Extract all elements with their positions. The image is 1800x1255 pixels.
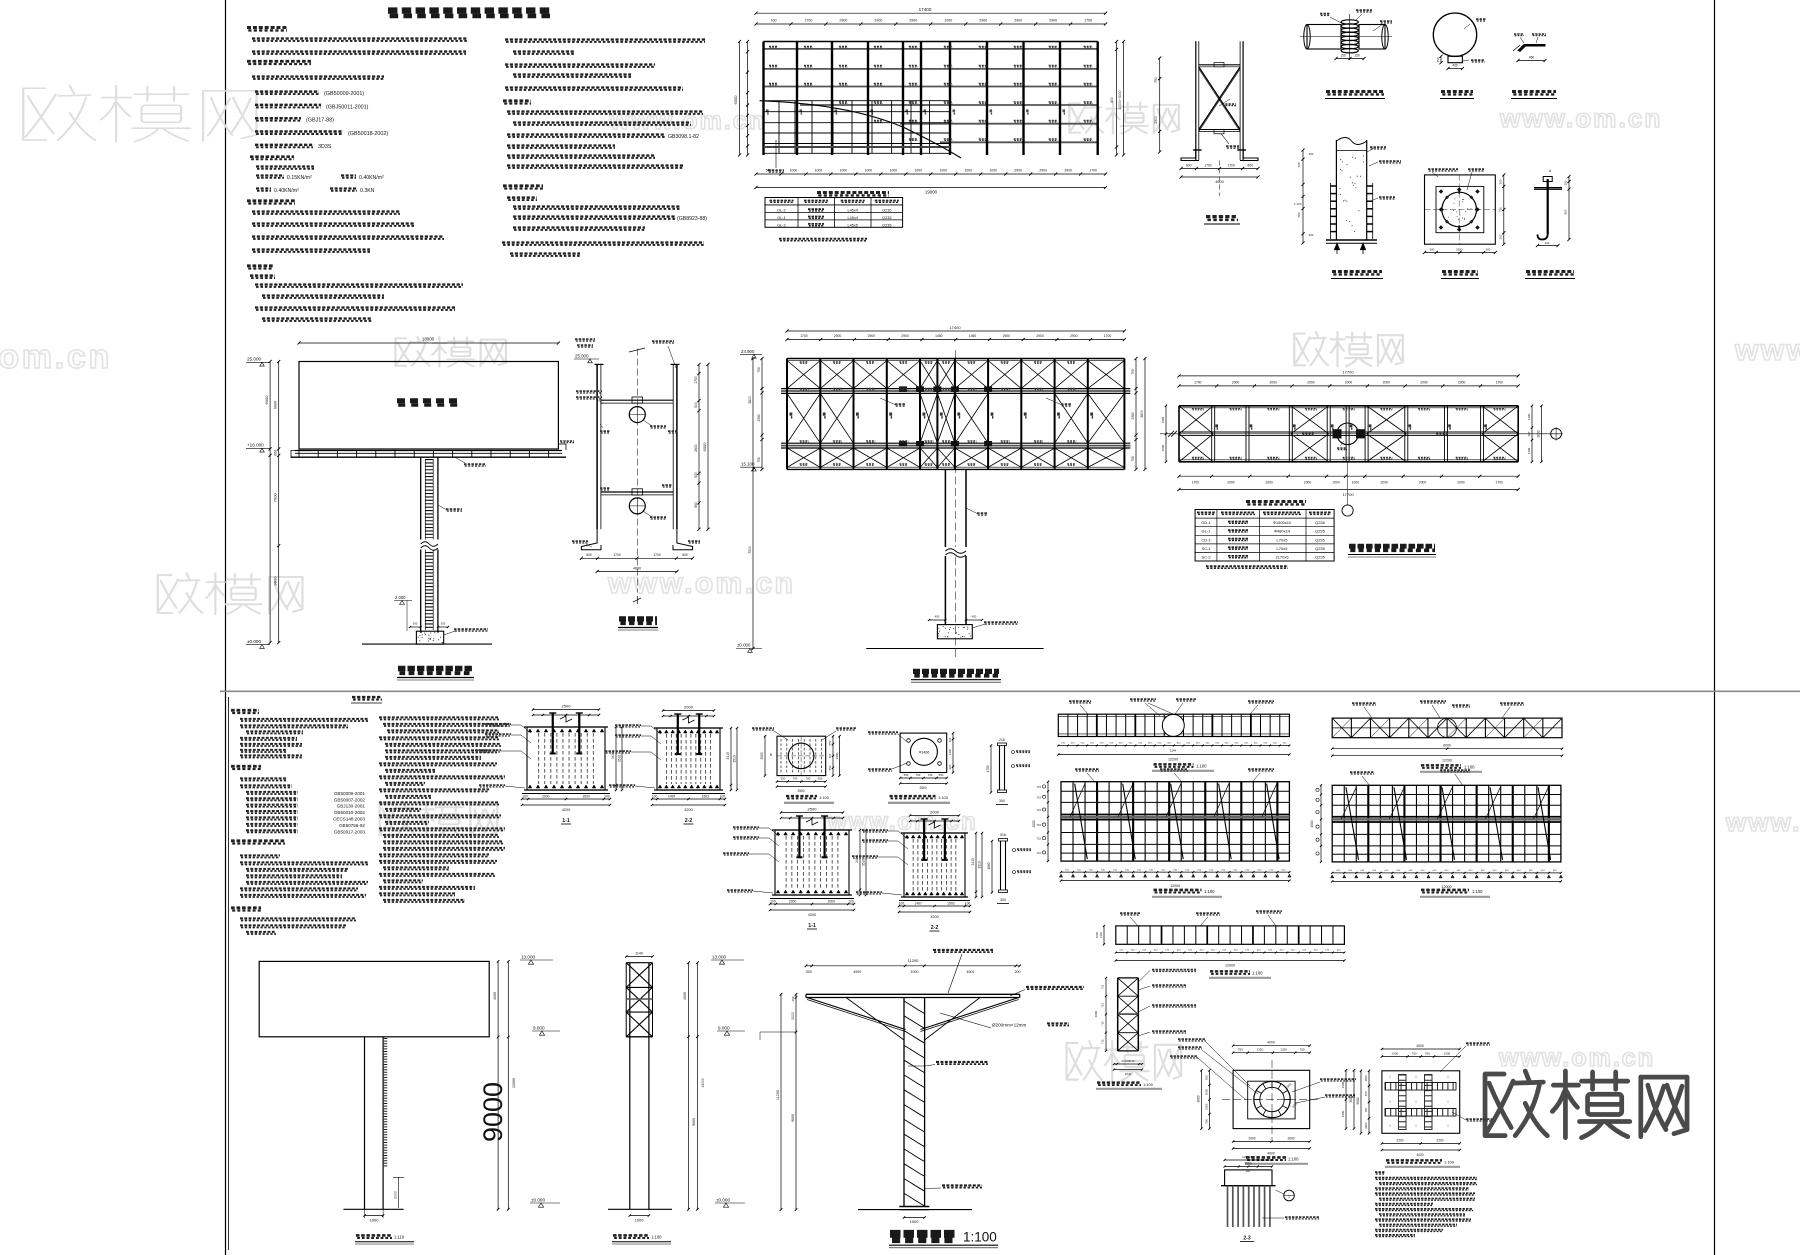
svg-text:Φ1500x10: Φ1500x10 xyxy=(1273,520,1292,525)
svg-text:1:100: 1:100 xyxy=(963,1230,997,1245)
svg-text:700: 700 xyxy=(1364,1091,1368,1096)
svg-text:3000: 3000 xyxy=(1537,430,1541,437)
svg-text:GL-1: GL-1 xyxy=(777,216,785,220)
svg-text:300: 300 xyxy=(1430,248,1435,252)
svg-text:2000: 2000 xyxy=(1270,380,1278,384)
svg-text:1300: 1300 xyxy=(1527,413,1531,420)
secondary grid beam labels xyxy=(769,45,778,47)
structure elevation title xyxy=(913,669,999,674)
structure plan: stiffener verticals xyxy=(1211,406,1213,462)
A-A section: leaders xyxy=(1428,168,1458,170)
svg-text:2000: 2000 xyxy=(828,900,836,904)
secondary grid left dimension columns xyxy=(747,42,749,156)
svg-text:700: 700 xyxy=(1425,1052,1430,1056)
foundation section 1-1B: anchor bolts xyxy=(798,816,800,857)
svg-text:3510: 3510 xyxy=(618,755,622,763)
structure elevation: top dims xyxy=(787,339,1124,341)
column elevation: left dim cols xyxy=(780,994,782,1209)
svg-text:2900: 2900 xyxy=(1039,169,1047,173)
svg-text:9800: 9800 xyxy=(273,576,278,586)
embed plate plan: title with underline xyxy=(786,795,817,797)
A-A section: title xyxy=(1442,270,1478,273)
svg-text:2000: 2000 xyxy=(1419,481,1427,485)
channel detail A xyxy=(999,746,1001,791)
svg-text:1300: 1300 xyxy=(1391,1052,1398,1056)
svg-text:9.000: 9.000 xyxy=(533,1026,545,1031)
svg-text:2500: 2500 xyxy=(808,807,818,812)
secondary grid beams lower xyxy=(800,104,1098,106)
billboard plan strip: bottom dims xyxy=(1332,748,1562,750)
svg-text:1000: 1000 xyxy=(635,1218,645,1223)
svg-text:2000: 2000 xyxy=(1383,380,1391,384)
secondary grid right dimension columns xyxy=(1116,42,1118,156)
front elevation small dim 2000 xyxy=(397,1177,399,1208)
billboard footing xyxy=(416,631,443,644)
svg-text:2000: 2000 xyxy=(1227,481,1235,485)
svg-text:19000: 19000 xyxy=(925,190,938,195)
svg-text:0.15KN/m²: 0.15KN/m² xyxy=(287,175,312,181)
structure plan: right side dims xyxy=(1531,406,1533,462)
foundation section 1-1B: bottom dims xyxy=(770,903,854,905)
svg-text:715: 715 xyxy=(1101,1003,1105,1008)
svg-text:1500: 1500 xyxy=(1341,1110,1345,1117)
svg-text:750: 750 xyxy=(1131,456,1135,462)
foundation section 2-2B: body xyxy=(904,833,965,897)
svg-text:2000: 2000 xyxy=(1232,380,1240,384)
foundation plan: left dims xyxy=(1209,1070,1211,1128)
svg-text:1140: 1140 xyxy=(635,952,643,956)
foundation section 1-1B: pile dashes xyxy=(785,836,787,889)
billboard plan strip: leaders xyxy=(1352,702,1376,704)
svg-text:600: 600 xyxy=(682,553,688,557)
svg-text:750: 750 xyxy=(1131,369,1135,375)
svg-text:100: 100 xyxy=(1564,180,1568,185)
svg-text:1700: 1700 xyxy=(986,765,990,772)
billboard back elevation grid: horizontals xyxy=(1061,790,1289,792)
secondary grid columns xyxy=(762,42,764,156)
svg-text:200: 200 xyxy=(791,996,795,1001)
section 1-1: lower pipe circle xyxy=(629,498,645,514)
svg-text:1:100: 1:100 xyxy=(1196,764,1207,769)
svg-text:4000: 4000 xyxy=(1416,1044,1424,1048)
foundation rebar plan: horizontal bands xyxy=(1385,1083,1456,1091)
svg-text:1700: 1700 xyxy=(653,553,661,557)
billboard front elevation: title xyxy=(1421,889,1469,892)
front elevation title xyxy=(356,1234,392,1237)
billboard walkway xyxy=(295,450,562,452)
ZJ-1 title xyxy=(1206,215,1238,218)
svg-text:750: 750 xyxy=(757,367,761,373)
foundation rebar plan: top dims xyxy=(1382,1056,1460,1058)
billboard panel text xyxy=(397,398,458,403)
walkway leader label xyxy=(455,457,465,463)
svg-text:1:100: 1:100 xyxy=(651,1235,662,1240)
billboard back elevation: left dim circles xyxy=(1047,782,1049,861)
svg-text:1: 1 xyxy=(1288,1194,1290,1198)
billboard side truss: left dims xyxy=(1105,978,1107,1051)
svg-text:715: 715 xyxy=(1037,837,1042,841)
svg-text:4900: 4900 xyxy=(853,970,861,974)
svg-text:450: 450 xyxy=(935,615,940,619)
components table (secondary) xyxy=(765,198,903,228)
svg-text:1500: 1500 xyxy=(1161,444,1165,451)
billboard back elevation: title xyxy=(1154,889,1202,892)
watermark oumo top-left xyxy=(23,86,256,142)
svg-text:750: 750 xyxy=(1300,1048,1305,1052)
svg-text:1000: 1000 xyxy=(1095,931,1099,938)
watermark oumo bottom-left-of-foundation xyxy=(1067,1041,1182,1081)
side elevation top truss section xyxy=(625,963,627,1037)
svg-text:4200: 4200 xyxy=(562,808,570,812)
svg-text:100: 100 xyxy=(848,900,854,904)
embed plate plan: body xyxy=(777,736,826,775)
svg-text:4200: 4200 xyxy=(808,913,816,917)
svg-text:100: 100 xyxy=(899,902,905,906)
billboard front elevation grid: horizontals xyxy=(1332,793,1561,795)
svg-text:550: 550 xyxy=(828,740,832,745)
svg-text:4000: 4000 xyxy=(1267,1041,1275,1045)
embed plate plan: corner leaders xyxy=(752,727,774,729)
ladder leader label xyxy=(438,505,447,510)
foundation section 2-2A: anchor bolts xyxy=(677,714,679,754)
billboard front elevation grid: frame xyxy=(1332,785,1561,862)
section 1-1: bottom dims xyxy=(581,557,692,559)
svg-text:4000: 4000 xyxy=(1267,1152,1275,1156)
svg-text:2900: 2900 xyxy=(1014,19,1022,23)
billboard back elevation: top leaders xyxy=(1075,768,1099,770)
svg-text:17700: 17700 xyxy=(1342,369,1354,374)
svg-text:13000: 13000 xyxy=(701,1078,705,1088)
svg-text:2000: 2000 xyxy=(684,705,694,710)
billboard side truss: right leaders xyxy=(1152,969,1196,971)
svg-text:3510: 3510 xyxy=(733,755,737,763)
svg-text:2200: 2200 xyxy=(1396,1139,1403,1143)
anchor hole plan: body xyxy=(900,733,947,772)
side elevation 1:100 column xyxy=(629,963,631,1210)
billboard plan strip: circle xyxy=(1438,718,1457,737)
svg-text:4901: 4901 xyxy=(967,970,975,974)
svg-text:218: 218 xyxy=(999,738,1005,742)
svg-text:GBJ130-2001: GBJ130-2001 xyxy=(337,804,366,809)
svg-text:(GBJ50011-2001): (GBJ50011-2001) xyxy=(326,104,369,110)
column elevation: spiral pole xyxy=(903,998,905,1207)
svg-text:9000: 9000 xyxy=(478,1082,508,1142)
column elevation: top dim row xyxy=(806,965,1020,967)
section 1-1: left channel xyxy=(596,364,598,529)
svg-text:300: 300 xyxy=(1499,179,1503,184)
svg-text:1500: 1500 xyxy=(1161,416,1165,423)
foundation plan: right dims xyxy=(1345,1070,1347,1128)
pile section 2-3: cap xyxy=(1225,1170,1272,1186)
structure elevation: right dim columns xyxy=(1135,359,1137,470)
svg-text:500: 500 xyxy=(694,402,698,408)
svg-text:12000: 12000 xyxy=(1170,884,1180,888)
svg-text:2900: 2900 xyxy=(1064,169,1072,173)
walkway step detail xyxy=(1518,45,1545,52)
bottom notes col A heading 2 xyxy=(231,765,261,768)
svg-text:13000: 13000 xyxy=(512,1078,516,1088)
foundation rebar plan: vertical bands xyxy=(1399,1075,1407,1130)
svg-text:2000: 2000 xyxy=(1287,1137,1294,1141)
svg-text:3500: 3500 xyxy=(1244,1162,1251,1166)
svg-text:120: 120 xyxy=(1545,241,1550,245)
billboard front elevation: left dim xyxy=(1320,785,1322,862)
svg-text:2500: 2500 xyxy=(797,789,804,793)
svg-text:1700: 1700 xyxy=(613,553,621,557)
embed plate plan: bottom dims xyxy=(777,781,826,783)
foundation section 1-1A: anchor bolts xyxy=(552,713,554,753)
svg-text:3510: 3510 xyxy=(862,859,866,867)
svg-text:1:100: 1:100 xyxy=(1464,765,1475,770)
svg-text:300: 300 xyxy=(441,622,446,626)
svg-text:17400: 17400 xyxy=(949,325,961,330)
side elevation top small dim 1140 xyxy=(626,956,652,958)
A-A section: dims xyxy=(1503,175,1505,244)
svg-text:2300: 2300 xyxy=(1131,412,1135,419)
structure plan: right centre bubble xyxy=(1551,428,1562,439)
svg-text:2900: 2900 xyxy=(909,19,917,23)
svg-text:Ø200mm×12mm: Ø200mm×12mm xyxy=(992,1023,1027,1028)
secondary grid bottom dimension rows xyxy=(756,173,1106,175)
svg-text:3200: 3200 xyxy=(930,915,938,919)
svg-text:2900: 2900 xyxy=(1036,334,1044,338)
svg-text:700: 700 xyxy=(1364,1107,1368,1112)
svg-text:1250 250: 1250 250 xyxy=(1242,1155,1254,1159)
svg-text:2900: 2900 xyxy=(1154,116,1158,124)
foundation section 2-2B: top dims xyxy=(910,815,959,817)
svg-text:2900: 2900 xyxy=(979,19,987,23)
anchor hole plan: corner holes xyxy=(907,739,911,743)
svg-text:17400: 17400 xyxy=(919,7,932,12)
svg-text:1:100: 1:100 xyxy=(1472,889,1483,894)
svg-text:±0.000: ±0.000 xyxy=(737,643,751,648)
notes column A body xyxy=(252,37,468,39)
pipe beam weld joint: title xyxy=(1326,90,1384,93)
svg-text:(GBJ17-88): (GBJ17-88) xyxy=(306,118,334,124)
foundation plan: top dims xyxy=(1233,1052,1310,1054)
svg-text:GB50756-92: GB50756-92 xyxy=(339,823,365,828)
anchor hole plan: big circle xyxy=(910,738,937,765)
column elevation: base dim 1000 xyxy=(904,1217,925,1219)
svg-text:1-1: 1-1 xyxy=(562,818,570,824)
svg-text:2000: 2000 xyxy=(791,1012,795,1020)
svg-text:2300: 2300 xyxy=(757,414,761,421)
bottom sheet title xyxy=(352,696,382,699)
svg-text:300: 300 xyxy=(1309,152,1314,156)
svg-text:1:100: 1:100 xyxy=(1294,202,1302,206)
oumo logo dark bottom-right xyxy=(1485,1071,1687,1138)
svg-text:17700: 17700 xyxy=(1342,492,1354,497)
svg-text:100: 100 xyxy=(720,795,726,799)
svg-text:200: 200 xyxy=(1015,970,1021,974)
svg-text:1450: 1450 xyxy=(935,334,943,338)
secondary grid frame xyxy=(764,41,1098,43)
svg-text:1700: 1700 xyxy=(804,19,812,23)
foundation section 2-2A: top dims xyxy=(663,710,714,712)
svg-text:9000: 9000 xyxy=(692,1118,696,1126)
svg-text:2000: 2000 xyxy=(760,752,764,759)
svg-text:2800: 2800 xyxy=(835,752,839,759)
svg-text:2000: 2000 xyxy=(1304,481,1312,485)
billboard front elevation: top leaders xyxy=(1350,771,1374,773)
foundation plan: title xyxy=(1246,1156,1286,1159)
structure plan: centre line with breaks xyxy=(1160,433,1560,435)
structure plan: bottom dims xyxy=(1179,475,1518,477)
pile section 2-3: top dims xyxy=(1225,1166,1272,1168)
svg-text:1140: 1140 xyxy=(1099,932,1103,938)
svg-text:750: 750 xyxy=(1499,207,1503,212)
svg-text:600: 600 xyxy=(1248,163,1254,167)
foundation section 1-1B: rebar ticks xyxy=(776,832,780,835)
svg-text:2-3: 2-3 xyxy=(1243,1236,1250,1242)
svg-text:550: 550 xyxy=(818,777,823,781)
svg-text:2-2: 2-2 xyxy=(931,925,939,931)
svg-text:715: 715 xyxy=(1037,851,1042,855)
svg-text:2900: 2900 xyxy=(868,334,876,338)
svg-text:300: 300 xyxy=(1000,898,1006,902)
billboard top plan strip xyxy=(1058,714,1289,736)
svg-text:2900: 2900 xyxy=(1070,334,1078,338)
svg-text:13.000: 13.000 xyxy=(521,955,535,960)
main components table note xyxy=(1206,565,1288,567)
svg-text:SC-2: SC-2 xyxy=(1201,555,1211,560)
column elevation: title large xyxy=(890,1230,957,1238)
svg-text:0.40KN/m²: 0.40KN/m² xyxy=(274,188,299,194)
svg-text:2000: 2000 xyxy=(1345,380,1353,384)
svg-text:600: 600 xyxy=(586,553,592,557)
svg-text:11200: 11200 xyxy=(908,958,920,963)
ladder detail title xyxy=(1441,90,1473,93)
svg-text:GL-2: GL-2 xyxy=(777,223,785,227)
svg-text:300: 300 xyxy=(806,970,812,974)
watermark oumo left-sheet-edge xyxy=(158,573,303,614)
pipe column base node: leaders xyxy=(1370,146,1386,148)
channel detail B xyxy=(1000,841,1002,890)
foundation section 1-1A: right dim xyxy=(615,727,617,790)
billboard walkway left hook xyxy=(291,451,295,459)
structure plan: end verticals xyxy=(1178,406,1180,462)
svg-text:300: 300 xyxy=(1499,234,1503,239)
svg-text:CECS148:2003: CECS148:2003 xyxy=(333,817,365,822)
svg-text:2.000: 2.000 xyxy=(395,595,406,600)
svg-text:3510: 3510 xyxy=(978,861,982,869)
svg-text:Q235: Q235 xyxy=(882,223,891,227)
svg-text:500: 500 xyxy=(766,169,772,173)
billboard left dimension columns xyxy=(269,362,271,643)
column elevation: label 24mm rolled plate xyxy=(936,1061,988,1063)
svg-text:3000: 3000 xyxy=(1349,1095,1353,1102)
ladder detail circle xyxy=(1433,13,1476,56)
svg-text:1400: 1400 xyxy=(948,748,952,755)
svg-text:1800: 1800 xyxy=(1364,1122,1368,1129)
front elevation base dim 1000 xyxy=(365,1215,384,1217)
notes column A heading 1 xyxy=(247,26,287,29)
pipe column base node: left dims xyxy=(1302,150,1304,243)
svg-text:500: 500 xyxy=(1205,1119,1209,1124)
svg-text:www.om.cn: www.om.cn xyxy=(827,809,978,836)
structure plan: left side dims xyxy=(1165,406,1167,462)
svg-text:2000: 2000 xyxy=(1420,380,1428,384)
svg-text:2000: 2000 xyxy=(1457,481,1465,485)
svg-text:3410: 3410 xyxy=(971,858,975,866)
foundation section 2-2B: bottom dims xyxy=(899,905,970,907)
foundation section 1-1B: top dims xyxy=(781,812,843,814)
structure elevation: cell labels xyxy=(800,361,808,363)
secondary grid: top dimension rows xyxy=(756,12,1106,14)
foundation section 1-1B: right dim xyxy=(859,830,861,895)
svg-text:±0.000: ±0.000 xyxy=(531,1198,545,1203)
foundation section 1-1A: body xyxy=(527,727,605,790)
foundation plan: corner leaders xyxy=(1178,1038,1206,1040)
svg-text:6000: 6000 xyxy=(264,395,269,405)
svg-text:1:100: 1:100 xyxy=(1444,1160,1455,1165)
svg-text:1700: 1700 xyxy=(1496,481,1504,485)
ZJ-1 X brace xyxy=(1199,67,1240,130)
svg-text:1000: 1000 xyxy=(964,169,972,173)
svg-text:www.om.cn: www.om.cn xyxy=(1498,1044,1655,1072)
structure plan: member labels xyxy=(1192,407,1204,409)
svg-text:4000: 4000 xyxy=(1310,820,1314,827)
svg-text:2200: 2200 xyxy=(1436,1139,1443,1143)
column elevation: top plate beam xyxy=(806,993,1020,995)
svg-text:GB50017-2003: GB50017-2003 xyxy=(334,829,366,834)
svg-text:1700: 1700 xyxy=(1104,334,1112,338)
svg-text:200: 200 xyxy=(1246,1169,1251,1173)
svg-text:700: 700 xyxy=(1297,212,1301,217)
svg-text:1144: 1144 xyxy=(1170,749,1177,753)
foundation section 2-2A: left leaders xyxy=(615,724,641,726)
structure elevation: beam label leader xyxy=(880,398,896,405)
foundation section 2-2B: rebar ticks xyxy=(905,835,909,838)
svg-text:5000: 5000 xyxy=(1356,1097,1360,1104)
svg-text:1500: 1500 xyxy=(1341,1081,1345,1088)
svg-text:2900: 2900 xyxy=(901,334,909,338)
front elevation pole xyxy=(364,1037,366,1210)
section 1-1: right dimension column xyxy=(698,364,700,529)
walkway step detail title xyxy=(1512,90,1556,93)
svg-text:1250: 1250 xyxy=(1280,1048,1287,1052)
svg-text:1000: 1000 xyxy=(1332,481,1340,485)
billboard side truss: bottom dims xyxy=(1114,1063,1142,1065)
section 1-1: lower flange beam xyxy=(601,491,673,493)
column elevation: base and ground xyxy=(899,1206,929,1208)
svg-text:1040: 1040 xyxy=(1125,1072,1132,1076)
svg-text:750: 750 xyxy=(757,457,761,463)
svg-text:2-2: 2-2 xyxy=(685,818,693,824)
billboard building elevation: top dimension xyxy=(299,342,558,344)
anchor hole plan: right dims xyxy=(952,733,954,772)
sheet borders xyxy=(225,0,227,1255)
svg-text:450: 450 xyxy=(1529,56,1535,60)
svg-text:2000: 2000 xyxy=(583,795,591,799)
svg-text:1:100: 1:100 xyxy=(1204,889,1215,894)
structure elevation: left dim columns xyxy=(761,359,763,470)
embed plate plan: circle xyxy=(788,743,814,769)
svg-text:±0.000: ±0.000 xyxy=(247,639,261,644)
foundation section 2-2B: pile dashes xyxy=(912,839,914,891)
structure elevation: X bracing bottom zone xyxy=(787,448,820,467)
svg-text:700: 700 xyxy=(1297,162,1301,167)
foundation plan: inner pit xyxy=(1248,1081,1295,1119)
billboard front elevation grid: diagonal braces xyxy=(1346,787,1359,860)
A-A section: outer plate xyxy=(1425,175,1496,244)
billboard back elevation grid: bottom tick row xyxy=(1061,871,1289,873)
svg-text:2900: 2900 xyxy=(1014,169,1022,173)
svg-text:L70x5: L70x5 xyxy=(1277,537,1289,542)
structure plan title xyxy=(1349,544,1435,549)
A-A section: dots in circle xyxy=(1448,198,1472,220)
svg-text:2000: 2000 xyxy=(1307,380,1315,384)
